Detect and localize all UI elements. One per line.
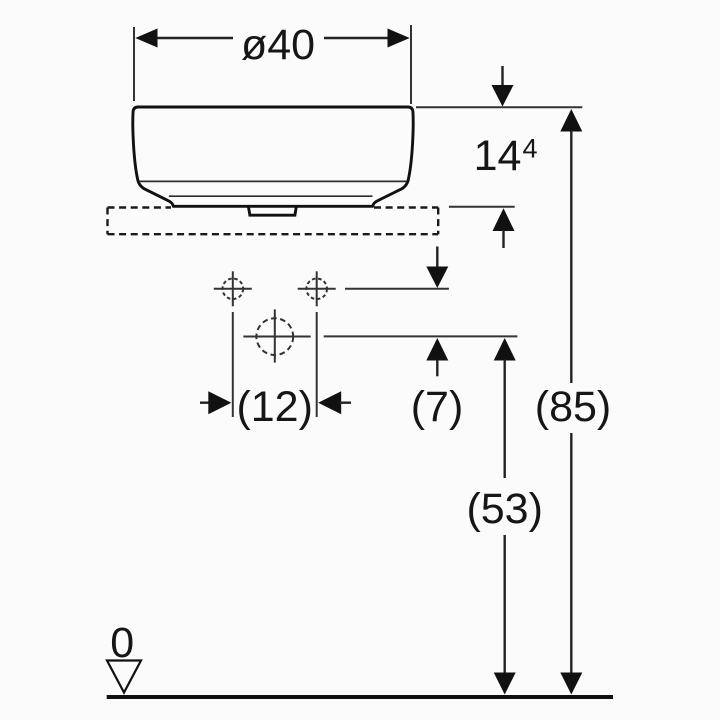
dimension 85 upper arrowhead <box>560 109 582 132</box>
dimension 85 lower arrowhead <box>560 673 582 695</box>
dimension 14-4 upper arrow stem <box>501 66 503 86</box>
dimension 12 right extension line <box>316 312 318 417</box>
dimension o40 left extension line <box>133 27 135 101</box>
dimension o40 left arrowhead <box>135 29 157 48</box>
svg-text:(85): (85) <box>535 383 611 431</box>
dimension 85 upper stem <box>570 131 572 384</box>
washbasin inner ridge line upper <box>140 180 407 182</box>
tap hole left crosshair vertical line <box>232 271 234 306</box>
dimension 53 upper arrowhead <box>494 338 516 361</box>
tap hole left crosshair circle <box>223 279 244 300</box>
washbasin drain outlet tab <box>248 206 296 215</box>
countertop dashed outline top left segment <box>108 206 172 208</box>
dimension 12 right arrow stem <box>339 402 351 404</box>
countertop dashed outline bottom edge <box>108 233 439 235</box>
washbasin foot top ridge line <box>169 195 373 197</box>
svg-text:ø40: ø40 <box>241 21 315 69</box>
dimension 12 left extension line <box>232 312 234 417</box>
dimension o40 line left segment <box>156 37 233 39</box>
countertop reference line <box>449 206 515 208</box>
dimension o40 right extension line <box>410 25 412 104</box>
countertop dashed outline top right segment <box>374 206 438 208</box>
dimension 7 lower arrow stem <box>436 360 438 377</box>
dimension 12 left arrow stem <box>200 402 211 404</box>
dimension 7 lower arrowhead <box>426 338 448 361</box>
tap hole level reference line <box>345 288 449 290</box>
drain hole dashed circle <box>256 318 293 355</box>
datum triangle <box>107 661 141 693</box>
dimension o40 right arrowhead <box>388 29 410 48</box>
tap hole right crosshair vertical line <box>316 271 318 306</box>
dimension 85 lower stem <box>570 433 572 674</box>
dimension o40 line right segment <box>324 37 389 39</box>
svg-text:4: 4 <box>522 134 537 164</box>
dimension 12 right arrowhead <box>318 391 341 414</box>
dimension 53 upper stem <box>504 360 506 479</box>
dimension 7 upper arrowhead <box>426 267 448 289</box>
tap hole left crosshair horizontal line <box>214 288 252 290</box>
tap hole right crosshair circle <box>306 279 327 300</box>
countertop dashed outline left edge <box>106 208 108 235</box>
basin top reference line <box>416 106 582 108</box>
dimension 12 left arrowhead <box>208 391 231 414</box>
svg-text:(7): (7) <box>411 383 464 431</box>
dimension 7 upper arrow stem <box>436 247 438 268</box>
svg-text:(53): (53) <box>466 485 542 533</box>
tap hole right crosshair horizontal line <box>298 288 336 290</box>
dimension 53 lower stem <box>504 535 506 674</box>
dimension 53 lower arrowhead <box>494 673 516 695</box>
dimension 14-4 lower arrowhead <box>493 208 515 231</box>
svg-text:14: 14 <box>474 132 522 180</box>
drain level reference line <box>324 335 518 337</box>
dimension 14-4 upper arrowhead <box>492 85 514 107</box>
dimension 14-4 lower arrow stem <box>502 230 504 248</box>
drain hole vertical centerline <box>274 309 276 362</box>
washbasin outer profile <box>133 107 413 206</box>
floor baseline <box>107 695 613 699</box>
drain hole horizontal centerline <box>243 336 310 338</box>
svg-text:(12): (12) <box>236 383 312 431</box>
countertop dashed outline right edge <box>437 208 439 235</box>
